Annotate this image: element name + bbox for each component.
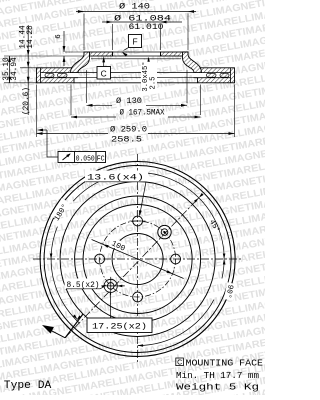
- hat flange circle: [83, 205, 192, 314]
- vent vane left 2: [58, 73, 68, 77]
- svg-text:258.5: 258.5: [111, 136, 142, 145]
- svg-text:F: F: [132, 36, 137, 46]
- label 90°: [224, 282, 237, 301]
- extension lines left: [4, 55, 84, 57]
- angular dimension arc: [138, 300, 214, 346]
- note 3.0x45° and 2.5: [141, 60, 157, 93]
- outer chamfer circle: [44, 166, 231, 353]
- svg-text:61.010: 61.010: [129, 23, 164, 32]
- label 13.6(x4): [85, 171, 148, 182]
- hat mounting flange section: [84, 52, 113, 56]
- band inner patch left: [74, 68, 78, 73]
- diagonal 45° centerline: [65, 196, 201, 338]
- svg-text:34.94: 34.94: [11, 57, 19, 81]
- bolt circle (dash-dot): [100, 221, 176, 297]
- svg-text:Ø 259.0: Ø 259.0: [110, 125, 147, 135]
- bore circle: [112, 234, 163, 285]
- datum F box: [129, 35, 142, 48]
- svg-text:2.5: 2.5: [150, 77, 158, 90]
- svg-text:13.6(x4): 13.6(x4): [87, 174, 144, 183]
- band inner edge circle: [75, 196, 201, 322]
- vent vane right 2: [220, 73, 229, 77]
- svg-text:C: C: [177, 359, 182, 366]
- friction band inner circle: [60, 182, 215, 337]
- bolt hole 3: [133, 292, 143, 302]
- svg-text:Ø 167.5MAX: Ø 167.5MAX: [120, 109, 165, 118]
- hat neck right section: [183, 52, 202, 73]
- braking band right section: [198, 68, 235, 83]
- bolt hole 4: [171, 254, 181, 264]
- section trace and view arrow: [65, 314, 83, 338]
- svg-text:Min. TH 17.7 mm: Min. TH 17.7 mm: [176, 370, 259, 381]
- svg-text:0.050: 0.050: [76, 155, 95, 163]
- hat neck left section: [71, 52, 90, 73]
- runout tolerance frame 0.050 FC: [39, 129, 48, 131]
- svg-text:MOUNTING FACE: MOUNTING FACE: [186, 357, 264, 368]
- label 8.5(x2): [65, 279, 102, 290]
- bolt hole 1: [133, 216, 143, 226]
- interior far-side edges: [91, 58, 181, 60]
- braking band left section: [37, 68, 75, 83]
- svg-text:FC: FC: [97, 155, 106, 163]
- vent vane right 1: [207, 73, 217, 77]
- svg-text:6: 6: [55, 34, 63, 39]
- svg-text:Ø 140: Ø 140: [119, 2, 150, 12]
- label 180°: [51, 198, 70, 221]
- datum C box: [97, 67, 111, 80]
- counterbore hole 45° (target): [158, 225, 171, 238]
- dimension 100 bolt circle: [92, 239, 184, 278]
- svg-text:Weight 5 Kg: Weight 5 Kg: [176, 382, 259, 393]
- band inner patch right: [194, 68, 198, 73]
- label 17.25(x2): [109, 293, 111, 319]
- counterbore hole 225°: [104, 279, 117, 292]
- top hole centerline tick: [130, 220, 146, 222]
- svg-text:Ø 130: Ø 130: [116, 96, 142, 106]
- svg-text:Type DA: Type DA: [4, 380, 52, 392]
- outer circle: [40, 162, 235, 357]
- vertical centerline: [137, 154, 139, 362]
- bolt hole 2: [95, 254, 105, 264]
- svg-text:17.25(x2): 17.25(x2): [92, 323, 147, 332]
- svg-text:(20.6): (20.6): [23, 87, 31, 115]
- vent vane left 1: [45, 73, 54, 77]
- bore edges: [112, 52, 114, 56]
- svg-text:C: C: [101, 68, 107, 78]
- horizontal centerline: [33, 258, 243, 260]
- C MOUNTING FACE note: [176, 358, 184, 366]
